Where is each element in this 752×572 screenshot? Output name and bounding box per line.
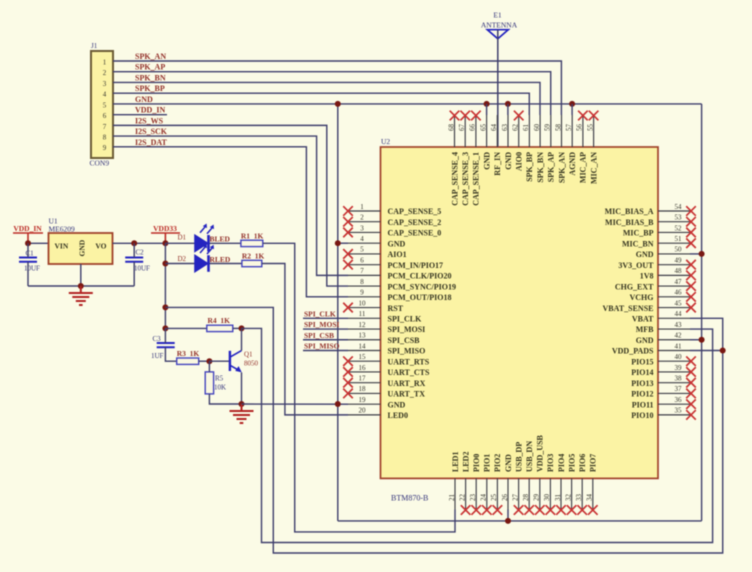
junction GND at U2 pin 65 bbox=[484, 101, 490, 107]
wire net SPK_AP from J1 pin 2 to U2 top pin 59 bbox=[113, 72, 551, 115]
svg-text:PCM_OUT/PIO18: PCM_OUT/PIO18 bbox=[388, 293, 452, 302]
svg-text:PIO0: PIO0 bbox=[472, 454, 481, 472]
junction gnd rail GND vertical bbox=[335, 401, 341, 407]
svg-text:R4 1K: R4 1K bbox=[208, 316, 231, 325]
wire net VBAT U2 pin 41 VDD_PADS connection bbox=[690, 349, 723, 351]
svg-text:CAP_SENSE_2: CAP_SENSE_2 bbox=[388, 218, 442, 227]
LED D2 symbol bbox=[195, 244, 214, 272]
svg-text:1V8: 1V8 bbox=[640, 272, 654, 281]
junction VDD33 VBAT branch bbox=[162, 304, 168, 310]
resistor R2 body bbox=[242, 260, 262, 266]
svg-text:CON9: CON9 bbox=[90, 159, 110, 168]
svg-text:AGND: AGND bbox=[568, 152, 577, 176]
svg-text:VIN: VIN bbox=[55, 242, 69, 251]
wire net SPI_MISO stub at U2 pin 14 bbox=[303, 349, 348, 351]
svg-text:59: 59 bbox=[544, 124, 552, 132]
U2 bottom no-connect marks bbox=[461, 505, 598, 515]
connector J1 pin numbers 1-9 bbox=[103, 58, 107, 152]
wire net GND U2 pin 26 connection bbox=[507, 510, 509, 521]
junction base node bbox=[206, 358, 212, 364]
wire C3 lower lead to R3 bbox=[165, 347, 176, 361]
regulator U1 body bbox=[49, 233, 113, 264]
svg-text:48: 48 bbox=[675, 267, 683, 275]
junction U1 gnd rail bbox=[78, 283, 84, 289]
svg-text:C1: C1 bbox=[26, 250, 35, 258]
wire R3 to base node bbox=[199, 360, 210, 362]
svg-text:CHG_EXT: CHG_EXT bbox=[615, 282, 654, 291]
svg-text:7: 7 bbox=[360, 267, 364, 275]
capacitor C3 plates bbox=[157, 343, 175, 347]
svg-text:68: 68 bbox=[447, 124, 455, 132]
U2 top no-connect marks bbox=[450, 111, 599, 121]
svg-text:VDD_IN: VDD_IN bbox=[135, 106, 165, 115]
wire net I2S_SCK from J1 pin 8 to U2 pin 7 bbox=[113, 136, 348, 275]
svg-text:SPK_AN: SPK_AN bbox=[135, 52, 166, 61]
svg-text:CAP_SENSE_5: CAP_SENSE_5 bbox=[388, 207, 442, 216]
U2 right pin numbers bbox=[675, 203, 683, 415]
svg-text:55: 55 bbox=[586, 124, 594, 132]
svg-text:VDD_IN: VDD_IN bbox=[13, 224, 42, 233]
svg-text:45: 45 bbox=[675, 299, 683, 307]
U2 bottom pin names bbox=[451, 434, 598, 472]
svg-text:VDD_PADS: VDD_PADS bbox=[612, 347, 654, 356]
svg-text:R3 1K: R3 1K bbox=[177, 349, 200, 358]
U2 right pin stubs bbox=[658, 211, 690, 415]
svg-text:38: 38 bbox=[675, 374, 683, 382]
svg-text:8050: 8050 bbox=[244, 359, 259, 367]
svg-text:36: 36 bbox=[675, 396, 683, 404]
svg-text:25: 25 bbox=[490, 494, 498, 502]
svg-text:51: 51 bbox=[675, 235, 683, 243]
svg-text:20: 20 bbox=[359, 407, 367, 415]
svg-text:PIO5: PIO5 bbox=[567, 454, 576, 472]
U2 bottom pin numbers bbox=[448, 494, 594, 502]
svg-text:PIO12: PIO12 bbox=[631, 390, 653, 399]
svg-text:23: 23 bbox=[469, 494, 477, 502]
junction VDD33 D2 row bbox=[162, 261, 168, 267]
svg-text:I2S_DAT: I2S_DAT bbox=[135, 138, 168, 147]
svg-text:D1: D1 bbox=[178, 234, 187, 242]
svg-text:47: 47 bbox=[675, 278, 683, 286]
svg-text:57: 57 bbox=[565, 124, 573, 132]
svg-text:R2 1K: R2 1K bbox=[242, 252, 265, 261]
svg-text:PCM_IN/PIO17: PCM_IN/PIO17 bbox=[388, 261, 444, 270]
wire net GND stub up from U2 pin 65 bbox=[486, 104, 488, 115]
wire net GND stub up from U2 pin 63 bbox=[507, 104, 509, 115]
wire net MFB from collector node to U2 pin 43 bbox=[242, 328, 713, 542]
svg-text:13: 13 bbox=[359, 332, 367, 340]
svg-text:4: 4 bbox=[103, 91, 107, 99]
svg-text:VBAT: VBAT bbox=[632, 315, 654, 324]
svg-text:14: 14 bbox=[359, 342, 367, 350]
wire C2 lower lead bbox=[133, 262, 135, 286]
svg-text:GND: GND bbox=[388, 400, 406, 409]
svg-text:VBAT_SENSE: VBAT_SENSE bbox=[603, 304, 654, 313]
svg-text:10K: 10K bbox=[214, 384, 226, 392]
svg-text:1: 1 bbox=[360, 203, 364, 211]
wire C1 upper lead bbox=[27, 243, 29, 257]
svg-text:1: 1 bbox=[103, 58, 107, 66]
svg-text:5: 5 bbox=[103, 101, 107, 109]
svg-text:LED1: LED1 bbox=[451, 452, 460, 472]
wire net SPI_MOSI stub at U2 pin 12 bbox=[303, 328, 348, 330]
svg-text:18: 18 bbox=[359, 385, 367, 393]
wire VDD33 to D2 anode bbox=[165, 263, 195, 265]
wire net GND stub into U2 pin 4 bbox=[338, 242, 348, 244]
wire net I2S_DAT from J1 pin 9 to U2 pin 9 bbox=[113, 147, 348, 297]
svg-text:34: 34 bbox=[586, 494, 594, 502]
svg-text:SPK_AP: SPK_AP bbox=[135, 63, 165, 72]
svg-text:MIC_AP: MIC_AP bbox=[579, 152, 588, 183]
wire U1 VO to VDD33 bbox=[113, 242, 166, 244]
svg-text:VDD33: VDD33 bbox=[153, 224, 177, 233]
svg-text:GND: GND bbox=[504, 454, 513, 472]
svg-text:7: 7 bbox=[103, 123, 107, 131]
wire net SPK_BP from J1 pin 4 to U2 top pin 61 bbox=[113, 93, 529, 115]
wire VDD33 vertical rail bbox=[164, 243, 166, 328]
wire VDD33 to R4 bbox=[165, 327, 206, 329]
wire net GND right vertical through U2 pins 50 and 42 bbox=[701, 104, 703, 521]
svg-text:27: 27 bbox=[511, 494, 519, 502]
wire R5 upper lead bbox=[208, 361, 210, 372]
wire net SPI_CLK stub at U2 pin 11 bbox=[303, 317, 348, 319]
wire Q1 emitter down to gnd rail bbox=[241, 372, 243, 404]
wire D1 cathode to R1 bbox=[210, 242, 241, 244]
svg-text:37: 37 bbox=[675, 385, 683, 393]
U2 top pin numbers bbox=[447, 124, 594, 132]
svg-text:Q1: Q1 bbox=[244, 350, 253, 358]
svg-text:19: 19 bbox=[359, 396, 367, 404]
svg-text:8: 8 bbox=[103, 134, 107, 142]
svg-text:12: 12 bbox=[359, 321, 367, 329]
svg-text:GND: GND bbox=[135, 95, 153, 104]
svg-text:CAP_SENSE_0: CAP_SENSE_0 bbox=[388, 229, 442, 238]
svg-text:PIO4: PIO4 bbox=[557, 454, 566, 472]
svg-text:GND: GND bbox=[77, 239, 86, 256]
svg-text:RLED: RLED bbox=[210, 255, 231, 264]
U2 top pin stubs bbox=[455, 115, 594, 147]
svg-text:I2S_WS: I2S_WS bbox=[135, 116, 164, 125]
resistor R5 body bbox=[205, 372, 213, 394]
svg-text:46: 46 bbox=[675, 289, 683, 297]
svg-text:62: 62 bbox=[512, 124, 520, 132]
svg-text:4: 4 bbox=[360, 235, 364, 243]
svg-text:22: 22 bbox=[458, 494, 466, 502]
svg-text:SPI_MOSI: SPI_MOSI bbox=[388, 325, 426, 334]
svg-text:42: 42 bbox=[675, 332, 683, 340]
svg-text:11: 11 bbox=[359, 310, 366, 318]
svg-text:PIO3: PIO3 bbox=[546, 454, 555, 472]
wire net I2S_WS from J1 pin 7 to U2 pin 8 bbox=[113, 125, 348, 286]
wire net GND bottom rail bbox=[338, 520, 702, 522]
capacitor C1 plates bbox=[19, 258, 37, 262]
wire net GND horizontal rail from J1 pin 5 across top bbox=[113, 103, 702, 105]
svg-text:MIC_BP: MIC_BP bbox=[623, 229, 654, 238]
svg-text:52: 52 bbox=[675, 224, 683, 232]
wire VDD33 to D1 anode bbox=[165, 242, 195, 244]
wire net AGND stub up from U2 pin 57 bbox=[571, 104, 573, 115]
junction VBAT VDD_PADS bbox=[720, 347, 726, 353]
svg-text:9: 9 bbox=[103, 144, 107, 152]
svg-text:AIO0: AIO0 bbox=[515, 152, 524, 171]
svg-text:35: 35 bbox=[675, 407, 683, 415]
wire C1 lower lead to gnd rail bbox=[27, 262, 29, 286]
svg-text:PCM_CLK/PIO20: PCM_CLK/PIO20 bbox=[388, 272, 452, 281]
ground symbol below Q1 bbox=[230, 404, 254, 423]
power port VDD33 bbox=[151, 233, 180, 243]
svg-text:U2: U2 bbox=[381, 137, 390, 146]
antenna E1 symbol bbox=[487, 30, 508, 39]
svg-text:63: 63 bbox=[501, 124, 509, 132]
svg-text:50: 50 bbox=[675, 246, 683, 254]
svg-text:PCM_SYNC/PIO19: PCM_SYNC/PIO19 bbox=[388, 282, 456, 291]
wire net GND U2 pin 50 connection bbox=[690, 253, 702, 255]
svg-text:61: 61 bbox=[522, 124, 530, 132]
svg-text:39: 39 bbox=[675, 364, 683, 372]
svg-text:PIO13: PIO13 bbox=[631, 379, 653, 388]
svg-text:PIO2: PIO2 bbox=[493, 454, 502, 472]
wire U1 gnd rail bbox=[28, 285, 134, 287]
svg-text:28: 28 bbox=[522, 494, 530, 502]
LED D1 symbol bbox=[195, 224, 214, 252]
svg-text:CAP_SENSE_4: CAP_SENSE_4 bbox=[450, 152, 459, 206]
svg-text:VO: VO bbox=[95, 242, 106, 251]
svg-text:D2: D2 bbox=[178, 255, 187, 263]
svg-text:PIO6: PIO6 bbox=[578, 454, 587, 472]
svg-text:SPK_BN: SPK_BN bbox=[135, 73, 166, 82]
svg-text:SPI_MISO: SPI_MISO bbox=[388, 347, 426, 356]
svg-text:21: 21 bbox=[448, 494, 456, 502]
wire gnd rail to U2 pin 19 bbox=[242, 403, 349, 405]
resistor R4 body bbox=[207, 325, 233, 331]
svg-text:SPI_MOSI: SPI_MOSI bbox=[304, 320, 340, 329]
junction GND at top turn bbox=[335, 101, 341, 107]
svg-text:SPI_CSB: SPI_CSB bbox=[304, 331, 334, 340]
svg-text:VCHG: VCHG bbox=[630, 293, 654, 302]
wire net SPK_AN from J1 pin 1 to U2 top pin 58 bbox=[113, 61, 561, 115]
wire net SPI_CSB stub at U2 pin 13 bbox=[303, 339, 348, 341]
svg-text:USB_DP: USB_DP bbox=[514, 442, 523, 472]
capacitor C2 plates bbox=[125, 258, 143, 262]
svg-text:PIO15: PIO15 bbox=[631, 357, 653, 366]
svg-text:PIO14: PIO14 bbox=[631, 368, 653, 377]
svg-text:E1: E1 bbox=[493, 11, 502, 20]
svg-text:SPK_BP: SPK_BP bbox=[525, 152, 534, 182]
svg-text:3V3_OUT: 3V3_OUT bbox=[618, 261, 654, 270]
U2 left pin numbers bbox=[359, 203, 367, 415]
svg-text:PIO11: PIO11 bbox=[632, 400, 654, 409]
svg-text:MIC_BIAS_A: MIC_BIAS_A bbox=[605, 207, 654, 216]
svg-text:CAP_SENSE_3: CAP_SENSE_3 bbox=[461, 152, 470, 206]
svg-text:26: 26 bbox=[501, 494, 509, 502]
junction VDD33 D1 row bbox=[162, 240, 168, 246]
junction collector node bbox=[239, 325, 245, 331]
svg-text:BTM870-B: BTM870-B bbox=[391, 494, 428, 503]
wire R5 lower lead to gnd rail bbox=[209, 394, 241, 404]
svg-text:10UF: 10UF bbox=[134, 265, 150, 273]
wire net VBAT from VDD33 rail to U2 pins 44 and 41 bbox=[165, 307, 722, 553]
svg-text:3: 3 bbox=[103, 80, 107, 88]
junction C2 tap bbox=[131, 240, 137, 246]
junction GND at U2 pin 50 bbox=[699, 251, 705, 257]
svg-text:J1: J1 bbox=[91, 42, 98, 50]
U2 right pin names bbox=[603, 207, 655, 420]
svg-text:49: 49 bbox=[675, 256, 683, 264]
svg-text:SPK_BP: SPK_BP bbox=[135, 84, 165, 93]
svg-text:58: 58 bbox=[554, 124, 562, 132]
svg-text:6: 6 bbox=[103, 112, 107, 120]
junction emitter gnd bbox=[239, 401, 245, 407]
resistor R1 body bbox=[241, 240, 263, 246]
wire net SPK_BN from J1 pin 3 to U2 top pin 60 bbox=[113, 82, 540, 115]
svg-text:USB_DN: USB_DN bbox=[525, 441, 534, 472]
wire U1 GND pin down bbox=[80, 264, 82, 286]
svg-text:54: 54 bbox=[675, 203, 683, 211]
wire C3 upper lead from VDD33 node bbox=[164, 328, 166, 343]
svg-text:ANTENNA: ANTENNA bbox=[481, 20, 518, 29]
U2 top pin names bbox=[450, 152, 598, 206]
svg-text:VDD_USB: VDD_USB bbox=[536, 434, 545, 472]
wire net GND U2 pin 42 connection bbox=[690, 339, 702, 341]
svg-text:3: 3 bbox=[360, 224, 364, 232]
svg-text:64: 64 bbox=[490, 124, 498, 132]
svg-text:RST: RST bbox=[388, 304, 404, 313]
U2 left pin stubs bbox=[348, 211, 381, 415]
svg-text:MIC_BIAS_B: MIC_BIAS_B bbox=[605, 218, 654, 227]
svg-text:GND: GND bbox=[504, 152, 513, 170]
wire net VDD_IN stub from J1 pin 6 bbox=[113, 114, 167, 116]
connector J1 body bbox=[91, 51, 113, 158]
svg-text:GND: GND bbox=[636, 250, 654, 259]
svg-text:15: 15 bbox=[359, 353, 367, 361]
svg-text:R5: R5 bbox=[215, 375, 224, 383]
power port VDD_IN bbox=[13, 233, 43, 243]
svg-text:40: 40 bbox=[675, 353, 683, 361]
svg-text:9: 9 bbox=[360, 289, 364, 297]
svg-text:BLED: BLED bbox=[210, 234, 231, 243]
svg-text:UART_RTS: UART_RTS bbox=[388, 357, 430, 366]
svg-text:ME6209: ME6209 bbox=[49, 225, 76, 234]
svg-text:29: 29 bbox=[533, 494, 541, 502]
wire net BLED R1 to U2 pin 21 LED1 bbox=[263, 243, 455, 532]
svg-text:UART_RX: UART_RX bbox=[388, 379, 426, 388]
svg-text:6: 6 bbox=[360, 256, 364, 264]
ground symbol below U1 bbox=[69, 286, 93, 305]
svg-text:SPK_BN: SPK_BN bbox=[536, 152, 545, 183]
svg-text:SPI_CSB: SPI_CSB bbox=[388, 336, 421, 345]
junction GND at U2 pin 4 bbox=[335, 240, 341, 246]
svg-text:2: 2 bbox=[360, 214, 364, 222]
svg-text:UART_CTS: UART_CTS bbox=[388, 368, 431, 377]
svg-text:LED2: LED2 bbox=[461, 452, 470, 472]
svg-text:33: 33 bbox=[575, 494, 583, 502]
svg-text:I2S_SCK: I2S_SCK bbox=[135, 127, 168, 136]
svg-text:16: 16 bbox=[359, 364, 367, 372]
svg-text:24: 24 bbox=[480, 494, 488, 502]
wire VDD_IN to U1 VIN bbox=[28, 242, 49, 244]
svg-text:GND: GND bbox=[388, 239, 406, 248]
resistor R3 body bbox=[177, 358, 199, 364]
svg-text:C2: C2 bbox=[136, 249, 145, 257]
svg-text:32: 32 bbox=[564, 494, 572, 502]
junction GND at U2 pin 42 bbox=[699, 337, 705, 343]
junction GND at U2 pin 57 AGND bbox=[569, 101, 575, 107]
wire D2 cathode to R2 bbox=[210, 263, 242, 265]
svg-text:5: 5 bbox=[360, 246, 364, 254]
U2 left pin names bbox=[388, 207, 456, 420]
svg-text:17: 17 bbox=[359, 374, 367, 382]
junction VDD_IN C1 tap bbox=[25, 240, 31, 246]
svg-text:67: 67 bbox=[458, 124, 466, 132]
svg-text:31: 31 bbox=[554, 494, 562, 502]
svg-text:SPI_CLK: SPI_CLK bbox=[388, 315, 423, 324]
transistor Q1 symbol bbox=[230, 351, 242, 373]
svg-text:1UF: 1UF bbox=[151, 352, 164, 360]
svg-text:PIO7: PIO7 bbox=[589, 454, 598, 472]
svg-text:SPK_AP: SPK_AP bbox=[547, 152, 556, 182]
svg-text:43: 43 bbox=[675, 321, 683, 329]
svg-text:65: 65 bbox=[479, 124, 487, 132]
junction VDD33 R4/C3 node bbox=[162, 325, 168, 331]
svg-text:GND: GND bbox=[636, 336, 654, 345]
U2 bottom pin stubs bbox=[455, 478, 593, 509]
svg-text:53: 53 bbox=[675, 214, 683, 222]
svg-text:2: 2 bbox=[103, 69, 107, 77]
svg-text:C3: C3 bbox=[153, 335, 162, 343]
wire base node to Q1 base bbox=[209, 360, 229, 362]
svg-text:LED0: LED0 bbox=[388, 411, 408, 420]
svg-text:UART_TX: UART_TX bbox=[388, 390, 426, 399]
wire net RLED R2 to U2 pin 20 LED0 bbox=[262, 264, 348, 415]
junction GND at U2 pin 26 bbox=[505, 518, 511, 524]
U2 right no-connect marks bbox=[686, 206, 696, 419]
svg-text:44: 44 bbox=[675, 310, 683, 318]
svg-text:SPI_MISO: SPI_MISO bbox=[304, 342, 340, 351]
wire net GND vertical to U2 pins 4 and 19 and bottom rail bbox=[337, 104, 339, 521]
IC U2 body bbox=[381, 147, 659, 478]
svg-text:CAP_SENSE_1: CAP_SENSE_1 bbox=[472, 152, 481, 206]
junction GND at U2 pin 63 bbox=[505, 101, 511, 107]
svg-text:MIC_AN: MIC_AN bbox=[589, 152, 598, 184]
svg-text:SPI_CLK: SPI_CLK bbox=[304, 310, 336, 319]
svg-text:56: 56 bbox=[576, 124, 584, 132]
wire Q1 collector up to node bbox=[241, 328, 243, 350]
U2 left no-connect marks bbox=[343, 206, 353, 398]
svg-text:10UF: 10UF bbox=[24, 265, 40, 273]
svg-text:AIO1: AIO1 bbox=[388, 250, 407, 259]
svg-text:RF_IN: RF_IN bbox=[493, 152, 502, 176]
svg-text:PIO10: PIO10 bbox=[631, 411, 653, 420]
svg-text:66: 66 bbox=[469, 124, 477, 132]
svg-text:PIO1: PIO1 bbox=[483, 454, 492, 472]
svg-text:10: 10 bbox=[359, 299, 367, 307]
svg-text:MFB: MFB bbox=[636, 325, 654, 334]
svg-text:30: 30 bbox=[543, 494, 551, 502]
svg-text:R1 1K: R1 1K bbox=[241, 232, 264, 241]
svg-text:SPK_AN: SPK_AN bbox=[557, 152, 566, 183]
svg-text:41: 41 bbox=[675, 342, 683, 350]
wire C2 upper lead bbox=[133, 243, 135, 257]
svg-text:8: 8 bbox=[360, 278, 364, 286]
wire antenna to U2 pin 64 RF_IN bbox=[497, 30, 499, 147]
wire R4 to collector node bbox=[233, 327, 242, 329]
svg-text:MIC_BN: MIC_BN bbox=[622, 239, 654, 248]
svg-text:GND: GND bbox=[482, 152, 491, 170]
svg-text:60: 60 bbox=[533, 124, 541, 132]
